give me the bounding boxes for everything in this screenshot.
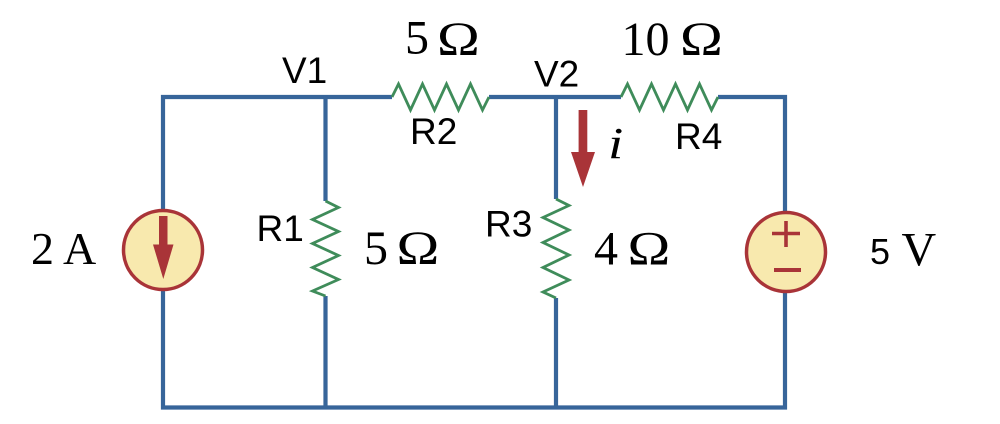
svg-text:i: i [608, 119, 623, 168]
svg-text:R4: R4 [675, 116, 722, 157]
voltage source circle (5 V) [747, 213, 826, 292]
svg-text:4: 4 [594, 223, 618, 276]
current source arrow [153, 216, 174, 279]
wire top-right corner [718, 97, 785, 213]
current source circle (2 A) [124, 211, 203, 290]
svg-text:R2: R2 [410, 111, 457, 152]
wire top-left corner [163, 97, 392, 210]
svg-text:Ω: Ω [437, 13, 480, 66]
svg-text:2 A: 2 A [31, 223, 96, 274]
resistor R3 zigzag [543, 199, 569, 298]
current arrow i [571, 110, 595, 187]
svg-text:R1: R1 [257, 208, 304, 249]
svg-text:10: 10 [622, 13, 670, 66]
svg-text:5: 5 [364, 222, 388, 275]
wire R3 branch lower [554, 298, 558, 408]
svg-text:5: 5 [405, 12, 429, 65]
svg-text:Ω: Ω [628, 223, 671, 276]
resistor R1 zigzag [313, 201, 339, 296]
resistor R4 zigzag [621, 84, 718, 110]
resistor R2 zigzag [392, 84, 489, 110]
svg-text:5: 5 [870, 231, 890, 272]
wire bottom rail with corners [163, 290, 785, 408]
svg-text:Ω: Ω [680, 13, 723, 66]
wire top middle segment [489, 95, 621, 99]
wire R1 branch upper [323, 95, 327, 201]
svg-text:V: V [902, 224, 937, 277]
svg-text:Ω: Ω [397, 222, 440, 275]
voltage source plus sign [772, 221, 800, 247]
svg-text:R3: R3 [485, 204, 532, 245]
svg-text:V2: V2 [534, 54, 579, 95]
wire R3 branch upper [554, 95, 558, 199]
wire R1 branch lower [323, 296, 327, 408]
voltage source minus sign [774, 268, 801, 272]
svg-text:V1: V1 [282, 50, 327, 91]
